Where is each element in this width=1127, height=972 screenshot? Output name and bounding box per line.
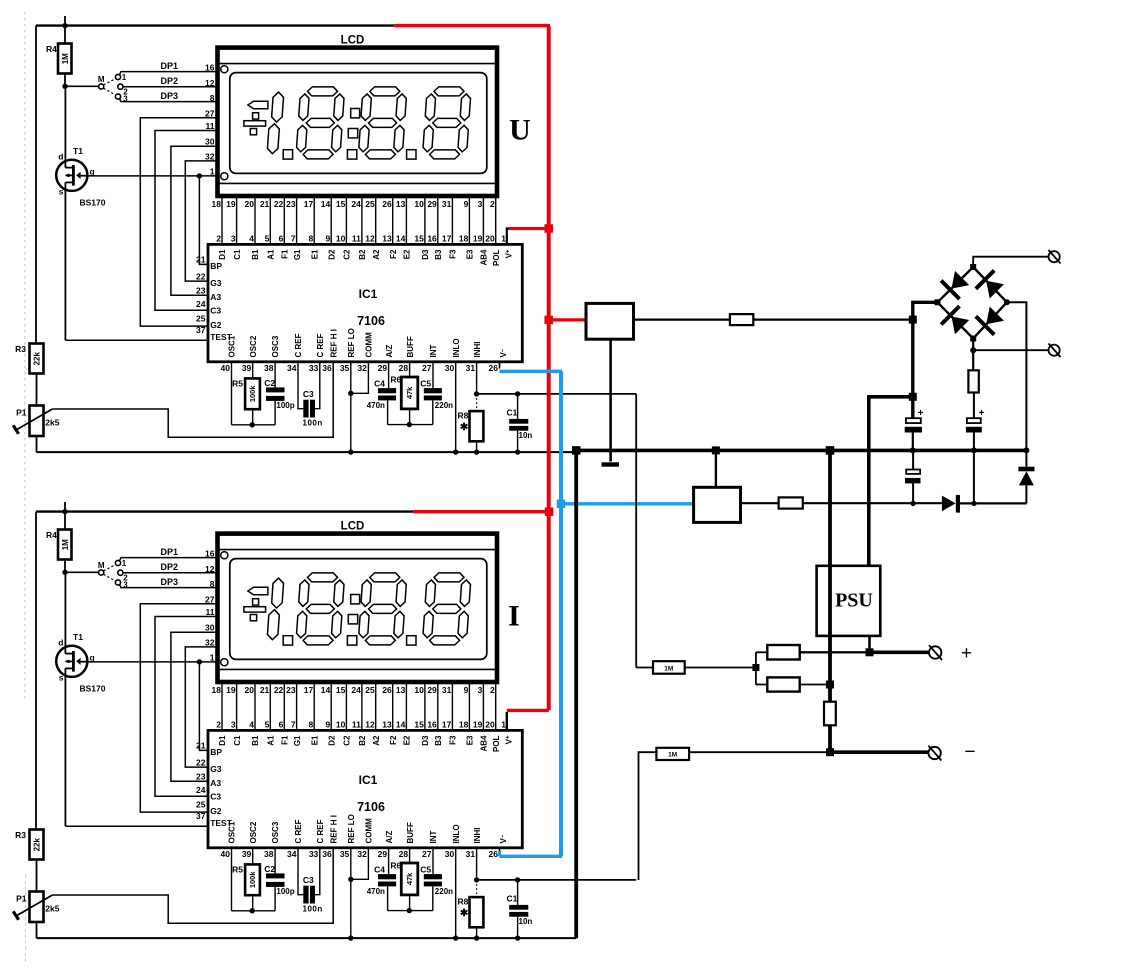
svg-text:G1: G1	[293, 249, 302, 260]
svg-text:OSC2: OSC2	[249, 335, 258, 357]
svg-text:7: 7	[291, 234, 296, 244]
wire: LCD pin 1 / T1 gate / IC pin 21 BP net	[89, 167, 218, 265]
svg-text:POL: POL	[492, 249, 501, 266]
wire: PSU + output lead	[868, 636, 871, 652]
svg-text:10: 10	[414, 199, 424, 209]
svg-text:OSC3: OSC3	[271, 821, 280, 843]
wire: rail I block right end up-link	[575, 937, 577, 939]
svg-text:D1: D1	[218, 735, 227, 746]
wire: AC bottom to terminal 2	[973, 349, 1048, 351]
svg-text:DP3: DP3	[161, 577, 179, 587]
svg-text:30: 30	[205, 137, 215, 147]
svg-text:32: 32	[205, 637, 215, 647]
svg-text:s: s	[59, 673, 64, 683]
svg-text:C3: C3	[303, 389, 314, 399]
wire: DP3 line to LCD pin 8	[120, 99, 218, 102]
node: R4/M/T1 junction	[62, 84, 67, 89]
svg-text:C1: C1	[233, 249, 242, 260]
terminal: AC input 2	[1049, 344, 1061, 358]
svg-text:8: 8	[210, 579, 215, 589]
wire: pin 40 OSC1 down	[231, 848, 233, 911]
wire: regulator 2 output	[741, 502, 779, 504]
LCD digits -1.8.8.8	[244, 573, 471, 645]
svg-text:G1: G1	[293, 735, 302, 746]
svg-text:32: 32	[357, 849, 367, 859]
svg-text:G2: G2	[210, 806, 222, 816]
capacitor C1 10n	[507, 394, 533, 452]
wire: DP2 line to LCD pin 12	[123, 86, 218, 88]
svg-text:26: 26	[489, 363, 499, 373]
node: red junction at regulator feed	[544, 316, 553, 325]
label: IC left pin names/numbers	[196, 254, 233, 342]
svg-text:B1: B1	[251, 735, 260, 746]
svg-text:26: 26	[382, 685, 392, 695]
svg-text:20: 20	[245, 685, 255, 695]
svg-text:B3: B3	[434, 735, 443, 746]
label: IC bottom pin names	[228, 814, 509, 843]
switch M (DP selector)	[65, 73, 128, 104]
node: bridge corners	[935, 264, 1010, 342]
svg-text:P1: P1	[16, 408, 27, 418]
wire: I block C1' node line up to minus net	[0, 0, 1, 1]
svg-text:38: 38	[264, 849, 274, 859]
wire: regulator 1 ground lead	[609, 339, 612, 461]
svg-text:C REF: C REF	[316, 819, 325, 843]
svg-text:16: 16	[427, 234, 437, 244]
svg-text:24: 24	[196, 299, 206, 309]
wire: regulator 1 output to bridge +	[634, 319, 731, 321]
svg-text:34: 34	[287, 849, 297, 859]
svg-text:26: 26	[382, 199, 392, 209]
svg-text:29: 29	[378, 363, 388, 373]
zener diode (across output)	[1018, 450, 1034, 503]
svg-text:INT: INT	[429, 345, 438, 358]
svg-text:33: 33	[309, 849, 319, 859]
svg-text:BS170: BS170	[80, 684, 106, 694]
transistor T1 BS170	[56, 86, 208, 340]
svg-text:3: 3	[478, 685, 483, 695]
svg-text:27: 27	[422, 849, 432, 859]
svg-text:11: 11	[206, 121, 215, 131]
svg-text:27: 27	[205, 594, 215, 604]
svg-text:17: 17	[304, 685, 314, 695]
svg-text:35: 35	[340, 849, 350, 859]
label: IC bottom pin names	[228, 328, 509, 357]
svg-text:R3: R3	[15, 344, 26, 354]
svg-text:COMM: COMM	[365, 332, 374, 358]
resistor R5' 100k	[232, 848, 260, 911]
svg-text:1: 1	[122, 73, 127, 82]
svg-text:C1: C1	[507, 894, 518, 904]
node: C1 top junction	[515, 877, 520, 882]
svg-text:REF LO: REF LO	[347, 814, 356, 843]
svg-text:16: 16	[427, 720, 437, 730]
svg-text:2k5: 2k5	[45, 418, 59, 428]
resistor (divider bottom)	[756, 677, 827, 691]
wire: OSC bottom tie	[232, 424, 276, 426]
label: LCD pin numbers	[212, 199, 495, 209]
svg-text:14: 14	[396, 720, 406, 730]
wire: red link to regulator 1	[549, 318, 586, 321]
svg-text:F1: F1	[281, 735, 290, 745]
wire: pin 40 OSC1 down	[231, 362, 233, 425]
svg-text:10: 10	[336, 234, 346, 244]
svg-text:8: 8	[210, 93, 215, 103]
svg-text:23: 23	[286, 685, 296, 695]
svg-text:2k5: 2k5	[45, 904, 59, 914]
node: OSC junction	[250, 422, 255, 427]
svg-text:D3: D3	[421, 735, 430, 746]
svg-text:DP1: DP1	[161, 61, 179, 71]
node: R4'/M/T1 junction	[62, 570, 67, 575]
svg-text:4: 4	[249, 234, 254, 244]
LCD display module (')	[218, 521, 498, 683]
svg-text:31: 31	[442, 199, 452, 209]
svg-text:PSU: PSU	[835, 590, 873, 612]
svg-text:22: 22	[196, 271, 206, 281]
wire: bridge left output	[913, 302, 938, 418]
wire: integrator bottom tie	[388, 424, 433, 426]
svg-text:18: 18	[459, 234, 469, 244]
svg-text:100k: 100k	[248, 871, 257, 889]
svg-text:7: 7	[291, 720, 296, 730]
node: R4 top junction	[62, 23, 67, 28]
label: IC bottom pin numbers	[221, 363, 499, 373]
svg-text:14: 14	[321, 199, 331, 209]
op-amp/ADC IC1' 7106	[208, 730, 522, 847]
scan artifact faint left line lower	[25, 875, 27, 962]
wire: red top segment (I block)	[413, 510, 550, 513]
LCD digits -1.8.8.8	[244, 87, 471, 159]
svg-text:A/Z: A/Z	[385, 831, 394, 844]
svg-text:24: 24	[351, 199, 361, 209]
svg-text:10: 10	[336, 720, 346, 730]
svg-text:31: 31	[442, 685, 452, 695]
wire: divider bracket	[755, 652, 757, 684]
svg-text:30: 30	[445, 363, 455, 373]
svg-text:E3: E3	[466, 735, 475, 745]
svg-text:E2: E2	[403, 249, 412, 259]
svg-text:19: 19	[226, 685, 236, 695]
wire: - output wire	[830, 750, 929, 754]
node: red junction at pin1 feed	[544, 224, 553, 233]
svg-text:A1: A1	[267, 735, 276, 746]
capacitor (below rail)	[905, 450, 921, 503]
svg-text:22: 22	[196, 757, 206, 767]
svg-text:E1: E1	[310, 249, 319, 259]
wire: top supply wire ( block)	[36, 16, 394, 26]
node: divider bracket junction	[752, 664, 759, 671]
svg-text:35: 35	[340, 363, 350, 373]
resistor R6' 47k	[390, 848, 417, 911]
svg-text:5: 5	[265, 234, 270, 244]
wire: inter-block 0V vertical	[574, 450, 578, 938]
svg-text:BP: BP	[210, 747, 222, 757]
wire: analog common rail	[37, 451, 577, 453]
svg-text:29: 29	[427, 199, 437, 209]
wire: branch to PSU input	[869, 397, 913, 566]
svg-text:470n: 470n	[367, 887, 385, 896]
node: rail junction squares	[572, 446, 834, 455]
label: IC top pin names	[218, 249, 513, 266]
svg-text:12: 12	[205, 564, 215, 574]
svg-text:C5: C5	[420, 865, 431, 875]
svg-text:A3: A3	[210, 778, 221, 788]
LCD display module ()	[218, 35, 498, 197]
svg-text:BP: BP	[210, 261, 222, 271]
svg-text:INLO: INLO	[452, 824, 461, 843]
svg-text:F2: F2	[389, 249, 398, 259]
svg-text:✱: ✱	[460, 422, 469, 433]
svg-text:A/Z: A/Z	[385, 345, 394, 358]
svg-text:27: 27	[422, 363, 432, 373]
svg-text:32: 32	[357, 363, 367, 373]
svg-text:2: 2	[216, 234, 221, 244]
wire: INHI junction to C1 node	[477, 393, 637, 395]
wire: INHI blue net vertical	[559, 371, 563, 856]
svg-text:BUFF: BUFF	[406, 822, 415, 843]
svg-text:F2: F2	[389, 735, 398, 745]
svg-text:23: 23	[196, 771, 206, 781]
label: IC top pin names	[218, 735, 513, 752]
svg-text:12: 12	[365, 234, 375, 244]
wire: DP3 line to LCD pin 8	[120, 585, 218, 588]
svg-text:25: 25	[196, 313, 206, 323]
capacitor C4 470n	[367, 362, 396, 425]
svg-text:36: 36	[322, 849, 332, 859]
svg-text:32: 32	[205, 151, 215, 161]
svg-text:REF H I: REF H I	[329, 815, 338, 843]
svg-text:11: 11	[352, 234, 361, 244]
wire: DP1 line to LCD pin 16	[120, 72, 218, 75]
svg-text:D2: D2	[327, 249, 336, 260]
svg-text:C2: C2	[264, 378, 275, 388]
svg-text:15: 15	[414, 720, 424, 730]
wire: main 0V thick rail (right)	[575, 449, 1029, 453]
svg-text:24: 24	[196, 785, 206, 795]
svg-text:47k: 47k	[405, 872, 414, 885]
svg-text:g: g	[90, 653, 95, 663]
wire: LCD pin 32 to IC pin 22	[185, 647, 217, 767]
wire: blue link IC1 pin 26	[500, 370, 563, 373]
svg-text:C3: C3	[210, 306, 221, 316]
node: smoothing cap junction	[910, 501, 915, 506]
svg-text:25: 25	[365, 685, 375, 695]
resistor R3 22k	[15, 344, 43, 406]
svg-text:34: 34	[287, 363, 297, 373]
svg-text:M: M	[98, 561, 105, 570]
node: red junction at I block top wire	[545, 507, 554, 516]
svg-text:3: 3	[231, 720, 236, 730]
wire: LCD pin 27 to IC pin 25	[140, 604, 217, 812]
svg-text:31: 31	[466, 849, 476, 859]
resistor (bleeder, right)	[968, 370, 978, 418]
svg-text:DP2: DP2	[161, 76, 179, 86]
svg-text:2: 2	[490, 685, 495, 695]
node: integrator junction	[407, 422, 412, 427]
svg-text:G3: G3	[210, 278, 222, 288]
svg-text:24: 24	[351, 685, 361, 695]
svg-text:R5: R5	[232, 379, 243, 389]
svg-text:31: 31	[466, 363, 476, 373]
svg-text:3: 3	[231, 234, 236, 244]
svg-text:20: 20	[485, 234, 495, 244]
svg-text:COMM: COMM	[365, 818, 374, 844]
svg-text:C2: C2	[343, 249, 352, 260]
wire: + output wire	[800, 651, 930, 653]
node: PSU output junction	[866, 648, 874, 656]
wire: bridge top AC to terminal	[973, 257, 1048, 267]
wire: pin 31 INHI down	[476, 848, 478, 880]
label: LCD pin numbers	[212, 685, 495, 695]
svg-text:27: 27	[205, 108, 215, 118]
svg-text:2: 2	[490, 199, 495, 209]
wire: pin 26 stub	[499, 848, 501, 855]
svg-text:18: 18	[212, 199, 222, 209]
wire: blue link to regulator 2	[561, 502, 694, 505]
svg-text:33: 33	[309, 363, 319, 373]
svg-text:R6: R6	[390, 375, 401, 385]
svg-text:T1: T1	[73, 632, 83, 642]
wire: bridge right output down	[1007, 302, 1027, 450]
svg-text:100n: 100n	[303, 904, 323, 913]
svg-text:39: 39	[242, 849, 252, 859]
svg-text:15: 15	[414, 234, 424, 244]
svg-text:40: 40	[221, 363, 231, 373]
svg-text:39: 39	[242, 363, 252, 373]
svg-text:1M: 1M	[668, 752, 677, 759]
svg-text:DP3: DP3	[161, 91, 179, 101]
svg-text:D1: D1	[218, 249, 227, 260]
svg-text:220n: 220n	[435, 401, 453, 410]
svg-text:LCD: LCD	[341, 521, 365, 533]
svg-text:F3: F3	[449, 735, 458, 745]
svg-text:100n: 100n	[303, 418, 323, 427]
svg-text:C2: C2	[343, 735, 352, 746]
terminal: + output	[929, 645, 942, 660]
wire: integrator bottom tie	[388, 910, 433, 912]
capacitor (electrolytic, reservoir 2)	[966, 408, 985, 451]
svg-text:36: 36	[322, 363, 332, 373]
terminal: - output	[928, 746, 941, 761]
node: gate/BP junction	[197, 173, 202, 178]
svg-text:B2: B2	[358, 249, 367, 260]
svg-text:9: 9	[325, 234, 330, 244]
svg-text:25: 25	[196, 799, 206, 809]
svg-text:220n: 220n	[435, 887, 453, 896]
svg-text:1: 1	[210, 167, 215, 177]
wire: PSU vertical feed (thick)	[828, 450, 832, 752]
op-amp/ADC IC1 7106	[208, 244, 522, 361]
svg-text:7106: 7106	[357, 800, 385, 814]
svg-text:A1: A1	[267, 249, 276, 260]
resistor 1M (to + divider)	[636, 661, 756, 674]
node: INHI junction	[474, 877, 479, 882]
svg-text:REF H I: REF H I	[329, 329, 338, 357]
svg-text:D2: D2	[327, 735, 336, 746]
wire: LCD pin 11 to IC pin 24	[155, 617, 218, 797]
svg-text:18: 18	[212, 685, 222, 695]
svg-text:22k: 22k	[32, 351, 41, 365]
resistor (output series)	[824, 702, 836, 726]
svg-text:R4: R4	[46, 44, 57, 54]
svg-text:F1: F1	[281, 249, 290, 259]
wire: DP2 line to LCD pin 12	[123, 572, 218, 574]
svg-text:9: 9	[464, 199, 469, 209]
svg-text:INHI: INHI	[473, 828, 482, 844]
wire: pin 30 INLO down to rail	[455, 362, 457, 452]
svg-text:12: 12	[205, 78, 215, 88]
svg-text:21: 21	[260, 685, 270, 695]
capacitor C3' 100n	[298, 848, 323, 914]
svg-text:17: 17	[442, 720, 452, 730]
svg-text:C4: C4	[374, 379, 385, 389]
svg-text:18: 18	[459, 720, 469, 730]
wire: pin 30 INLO down to rail	[455, 848, 457, 938]
svg-text:19: 19	[473, 720, 483, 730]
wire: P1 wiper to IC pin 36 REF HI	[52, 362, 333, 438]
wire: blue link IC1' pin 26	[500, 851, 563, 856]
wire: INHI junction to C1 node	[477, 879, 637, 881]
wire: OSC bottom tie	[232, 910, 276, 912]
svg-text:C REF: C REF	[294, 333, 303, 357]
svg-text:22: 22	[274, 199, 284, 209]
node: COMM/REF LO junction	[348, 391, 353, 396]
svg-text:E1: E1	[310, 735, 319, 745]
svg-text:F3: F3	[449, 249, 458, 259]
svg-text:1: 1	[122, 559, 127, 568]
svg-text:14: 14	[396, 234, 406, 244]
svg-text:14: 14	[321, 685, 331, 695]
wire: V+ red net vertical	[547, 26, 551, 710]
svg-text:C REF: C REF	[294, 819, 303, 843]
svg-text:C2: C2	[264, 864, 275, 874]
svg-text:C1: C1	[233, 735, 242, 746]
svg-text:29: 29	[378, 849, 388, 859]
svg-text:R4: R4	[46, 530, 57, 540]
svg-text:−: −	[964, 741, 975, 763]
svg-text:AB4: AB4	[480, 249, 489, 266]
potentiometer P1 2k5	[13, 406, 60, 453]
resistor (divider top)	[756, 645, 800, 660]
svg-text:G2: G2	[210, 320, 222, 330]
wire: pin 36 REF HI / pin 35 REF LO / pin 32 COMM	[351, 362, 369, 452]
svg-text:C3: C3	[210, 792, 221, 802]
potentiometer P1' 2k5	[13, 892, 60, 939]
wire: LCD pin 27 to IC pin 25	[140, 118, 217, 326]
svg-text:E3: E3	[466, 249, 475, 259]
svg-text:R3: R3	[15, 830, 26, 840]
resistor 1M' (to - line)	[639, 748, 828, 880]
svg-text:I: I	[508, 600, 520, 633]
node: C1 top junction	[515, 391, 520, 396]
capacitor C5' 220n	[420, 848, 453, 911]
node: AC bottom junction	[970, 347, 976, 353]
wire: LCD pin 30 to IC pin 23	[171, 146, 218, 295]
PSU block	[817, 566, 881, 636]
node: rail end junctions	[910, 447, 1030, 453]
resistor R4 1M	[46, 26, 72, 87]
resistor R8'	[458, 880, 484, 938]
bridge rectifier B1	[938, 267, 1007, 339]
svg-text:AB4: AB4	[480, 735, 489, 752]
svg-text:28: 28	[399, 363, 409, 373]
wire: LCD pin 30 to IC pin 23	[171, 632, 218, 781]
wire: red top segment (U block)	[394, 24, 550, 27]
svg-text:D3: D3	[421, 249, 430, 260]
node: OSC junction	[250, 908, 255, 913]
svg-text:P1: P1	[16, 894, 27, 904]
